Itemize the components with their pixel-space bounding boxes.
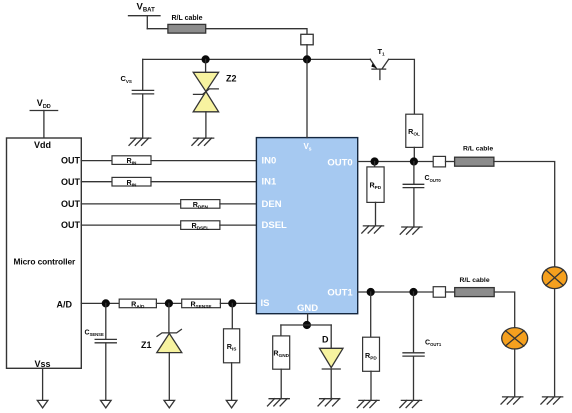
svg-text:R/L cable: R/L cable [460,277,490,284]
ground (Z1, arrow) [164,400,175,408]
svg-text:DSEL: DSEL [262,220,288,231]
svg-text:IS: IS [261,298,270,309]
resistor RAD [119,299,156,308]
junction Z1 tap [165,299,173,307]
wire RGND to ground [280,369,282,399]
svg-text:GND: GND [297,303,318,314]
wire RDSEL to DSEL [220,224,257,226]
wire Vss to ground [42,368,44,400]
wire lamp1 to ground [514,349,516,397]
wire GND to RGND [280,325,282,336]
svg-text:Vss: Vss [34,359,50,369]
wire T1 to ROL [389,59,415,114]
svg-text:D: D [322,334,329,344]
wire cable OUT1 to lamp1 [494,292,515,328]
junction CSENSE tap [102,299,110,307]
wire ROL to OUT0 node [413,147,415,161]
svg-text:R/L cable: R/L cable [172,15,203,22]
wire VBAT to cable [147,28,168,30]
ground (Z2, hatched) [192,138,214,145]
wire OUT1 to RPD1 [370,292,372,337]
resistor RPD (OUT1) [363,337,380,371]
ground (D, hatched) [318,399,340,406]
ground (Vss, arrow) [37,400,48,408]
svg-text:OUT0: OUT0 [327,157,352,168]
wire RIS junction down [231,303,233,328]
diode D [320,348,344,398]
svg-text:Micro controller: Micro controller [14,257,77,267]
wire OUT pin2 to RIN2 [81,181,112,183]
resistor ROL [406,114,423,147]
svg-text:Z2: Z2 [226,73,237,83]
node VDD supply symbol [30,111,57,139]
wire RPD0 to ground [375,202,377,226]
ground (COUT1, hatched) [400,400,422,407]
junction Vs tap [303,55,311,63]
junction COUT0 tap [410,157,418,165]
wire OUT pin1 to RIN1 [81,160,112,162]
wire square to cable OUT0 [446,161,455,163]
wire RDEN to DEN [220,203,257,205]
svg-text:OUT: OUT [61,199,81,209]
ground (RPD1, hatched) [357,400,379,407]
ground (RPD0, hatched) [362,226,384,233]
ground (RIS, arrow) [226,400,237,408]
diode Z1 (zener) [157,303,182,400]
capacitor CVS [132,59,153,138]
wire OUT0 net [358,161,434,163]
diode Z2 (bidirectional suppressor) [193,59,218,138]
ground (RGND, hatched) [268,399,290,406]
capacitor CSENSE [95,303,116,400]
svg-text:IN1: IN1 [262,177,278,188]
connector square (OUT1) [433,287,445,298]
resistor RIN (2) [112,177,151,186]
wire RIN1 to IN0 [151,160,256,162]
capacitor COUT1 [403,292,424,400]
connector square (OUT0) [433,156,445,167]
junction Z2 tap [202,55,210,63]
ground (lamp1, hatched) [501,397,523,404]
svg-text:Vdd: Vdd [34,140,51,150]
connector square (supply) [301,34,313,45]
resistor RDEN [181,200,220,209]
wire RIN2 to IN1 [151,181,256,183]
wire cable OUT0 to lamp2 [494,162,555,267]
wire RAD to RSENSE [156,302,181,304]
junction COUT1 tap [409,288,417,296]
op-amp U1 (smart switch IC box) [256,138,357,314]
wire OUT0 to RPD0 [374,162,376,167]
wire lamp2 to ground [554,289,556,397]
wire Vs rail to T1 [369,58,371,60]
ground (COUT0, hatched) [400,227,422,234]
wire square to cable OUT1 [446,291,455,293]
ground (CSENSE, arrow) [101,400,112,408]
lamp L1 [502,328,528,349]
resistor RSENSE [182,299,221,308]
svg-text:DEN: DEN [262,199,282,210]
wire RSENSE to IS pin [220,302,256,304]
resistor RDSEL [181,221,220,230]
wire GND node branches [281,324,331,326]
svg-text:OUT1: OUT1 [327,287,353,298]
resistor R/L cable (battery feed) [168,24,206,33]
wire A/D pin to RAD [81,302,119,304]
svg-text:Z1: Z1 [141,340,152,350]
wire Vs rail [143,58,371,60]
lamp L2 [542,267,567,289]
svg-text:A/D: A/D [57,299,73,309]
wire cable to corner and down to square [206,29,307,35]
resistor RIN (1) [112,156,151,165]
transistor T1 [370,59,388,79]
ground (CVS, hatched) [129,138,151,145]
wire OUT pin4 to RDSEL [81,224,180,226]
resistor RPD (OUT0) [367,167,384,203]
svg-text:OUT: OUT [61,177,81,187]
junction GND node [303,321,311,329]
wire GND pin down [307,314,309,325]
junction RPD1 tap [367,288,375,296]
wire RPD1 to ground [370,371,372,400]
node VBAT supply symbol [129,16,161,29]
micro controller U (box) [7,138,82,368]
svg-text:OUT: OUT [61,220,81,230]
capacitor COUT0 [403,162,424,228]
resistor RIS [224,329,240,363]
wire RIS to ground [231,363,233,401]
resistor RGND [273,336,290,369]
junction RPD0 tap [371,157,379,165]
wire GND to diode D [330,325,332,348]
wire OUT pin3 to RDEN [81,203,180,205]
svg-text:R/L cable: R/L cable [463,145,493,152]
ground (lamp2, hatched) [541,397,563,404]
svg-text:OUT: OUT [61,156,81,166]
wire square to Vs rail [306,45,308,60]
wire Vs junction to IC Vs pin [306,59,308,137]
wire OUT1 net [358,291,434,293]
resistor R/L cable (OUT1) [455,288,495,297]
junction RIS tap [228,299,236,307]
svg-text:IN0: IN0 [262,156,277,167]
resistor R/L cable (OUT0) [455,157,494,166]
